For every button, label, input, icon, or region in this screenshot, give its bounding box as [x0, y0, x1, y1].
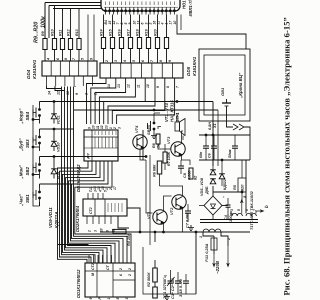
svg-text:R10: R10	[50, 29, 54, 36]
svg-text:68н: 68н	[199, 151, 203, 158]
svg-text:К161КН1: К161КН1	[192, 56, 197, 76]
transformer primary winding	[203, 229, 221, 232]
wire	[154, 282, 156, 287]
svg-text:2: 2	[89, 190, 93, 193]
wire to R12	[70, 11, 72, 38]
svg-text:R15: R15	[109, 28, 113, 36]
svg-text:НА1 КТ315: НА1 КТ315	[170, 100, 175, 122]
svg-text:~220В: ~220В	[215, 260, 220, 274]
wire	[100, 231, 250, 233]
wires transistor pair	[146, 160, 153, 213]
wire	[148, 15, 150, 38]
svg-text:R9: R9	[41, 31, 45, 36]
resistor R19	[146, 38, 150, 49]
svg-text:VT4: VT4	[134, 125, 139, 133]
diode VD9 КД522А	[51, 169, 57, 174]
DD3 bottom pin wires	[58, 161, 89, 190]
battery GB1	[222, 102, 231, 104]
svg-text:С8: С8	[183, 172, 187, 178]
DD1 top pin wires	[88, 255, 90, 263]
ground	[190, 225, 192, 228]
wire	[49, 5, 101, 7]
svg-text:b: b	[264, 205, 269, 208]
wire	[121, 15, 123, 38]
battery box outer	[199, 49, 250, 121]
transistor VT1	[153, 210, 167, 224]
svg-text:2: 2	[128, 268, 132, 271]
wire	[143, 247, 155, 294]
wire	[74, 109, 218, 111]
svg-text:1к: 1к	[157, 144, 161, 148]
wire	[53, 8, 79, 10]
wire	[39, 157, 41, 161]
IC DD3 К176ИД2	[84, 130, 118, 161]
svg-text:К161КН1: К161КН1	[32, 59, 37, 79]
svg-text:9: 9	[89, 298, 93, 300]
capacitor C9	[232, 145, 238, 147]
svg-text:R8: R8	[152, 143, 156, 148]
wire	[157, 49, 159, 64]
svg-text:12: 12	[57, 91, 61, 95]
transistor VT2	[172, 195, 186, 209]
svg-text:VD9-VD11: VD9-VD11	[48, 207, 53, 228]
svg-text:6,8Н: 6,8Н	[208, 122, 212, 130]
wire	[130, 49, 132, 64]
svg-text:Рис. 68. Принципиальная схема: Рис. 68. Принципиальная схема настольных…	[282, 17, 292, 295]
wire	[39, 102, 41, 106]
battery box inner	[204, 55, 245, 115]
svg-text:R13: R13	[75, 29, 79, 36]
svg-text:3: 3	[230, 209, 234, 211]
svg-text:5: 5	[237, 209, 241, 211]
svg-text:С1* С2* С3: С1* С2* С3	[170, 278, 175, 299]
svg-text:17: 17	[113, 185, 117, 190]
wire	[244, 127, 250, 160]
svg-text:R19: R19	[145, 29, 149, 36]
svg-text:5: 5	[104, 190, 108, 192]
wire	[62, 50, 64, 62]
vertical wires mid	[149, 155, 151, 245]
wire	[121, 49, 123, 64]
wire SB2 row extension	[74, 156, 146, 158]
wire row	[40, 101, 75, 103]
resistor R5 820	[238, 178, 246, 192]
wire	[195, 232, 197, 294]
svg-text:VD5...VD8: VD5...VD8	[200, 177, 204, 196]
diode VD6	[210, 179, 216, 184]
svg-text:9: 9	[75, 93, 79, 95]
wire	[48, 6, 50, 39]
wire	[166, 49, 168, 64]
svg-text:X1: X1	[213, 123, 217, 129]
svg-text:R5: R5	[233, 184, 237, 190]
svg-text:9: 9	[168, 60, 172, 62]
wire	[78, 9, 80, 12]
svg-text:ЗП-1: ЗП-1	[175, 112, 180, 122]
resistor R21	[164, 38, 168, 49]
wire	[93, 15, 95, 62]
fuse FU1 0,25А	[211, 238, 217, 250]
svg-text:DD2К176ИЕ4: DD2К176ИЕ4	[75, 205, 80, 232]
wire	[54, 50, 56, 62]
svg-text:R9...R20: R9...R20	[34, 22, 40, 43]
wire	[39, 129, 41, 133]
wire row	[40, 183, 75, 185]
svg-text:7: 7	[176, 85, 180, 88]
svg-text:„Корр”: „Корр”	[19, 108, 24, 125]
svg-text:КД522: КД522	[223, 179, 227, 190]
DD2 top pin wires	[87, 193, 89, 199]
capacitor C8 0,068	[178, 165, 184, 167]
IC DD4 К161КН1	[42, 61, 97, 76]
wire to R10	[54, 6, 56, 39]
transistor VT4	[133, 135, 147, 149]
svg-text:ИВЛ1-7/5: ИВЛ1-7/5	[188, 0, 193, 17]
wire emitter VT3	[182, 155, 191, 166]
svg-text:R6 68К: R6 68К	[153, 164, 157, 177]
resistor R14	[101, 38, 105, 49]
svg-text:8: 8	[64, 58, 68, 60]
svg-text:„Буд”: „Буд”	[19, 138, 24, 152]
svg-text:DD1К176ИЕ12: DD1К176ИЕ12	[76, 269, 81, 298]
capacitor C6 68н	[211, 145, 217, 147]
resistor R8 1к	[156, 134, 160, 144]
resistor R3	[113, 229, 126, 233]
junction dots	[154, 231, 156, 233]
svg-text:R12: R12	[66, 29, 70, 36]
svg-text:1: 1	[107, 298, 111, 300]
svg-text:VD10: VD10	[57, 142, 61, 152]
wire	[112, 15, 114, 38]
wire	[166, 15, 168, 38]
resistor R17	[128, 38, 132, 49]
svg-text:12: 12	[127, 84, 131, 88]
svg-text:„Час”: „Час”	[19, 193, 24, 207]
svg-text:5: 5	[116, 298, 120, 300]
resistor R9	[43, 39, 47, 50]
wire	[153, 113, 155, 119]
ground	[166, 294, 168, 297]
svg-text:3: 3	[117, 127, 121, 129]
svg-text:7: 7	[72, 57, 76, 60]
svg-text:Д9Б: Д9Б	[205, 186, 209, 195]
svg-text:СТ2: СТ2	[91, 263, 95, 270]
wire	[103, 49, 105, 64]
wire	[199, 134, 250, 136]
svg-text:С7 0,068: С7 0,068	[186, 212, 190, 228]
svg-text:VT2: VT2	[169, 207, 174, 215]
connector arrows X1	[233, 124, 244, 130]
svg-text:SB1: SB1	[25, 194, 30, 203]
wire	[87, 15, 89, 62]
bus wires from DD4	[61, 87, 63, 229]
wire	[53, 8, 101, 10]
svg-text:10: 10	[173, 21, 177, 25]
IC DD5 К161КН1	[100, 63, 183, 78]
wire	[213, 191, 242, 193]
resistor R15	[110, 38, 114, 49]
svg-text:HG1: HG1	[182, 0, 187, 9]
wire	[55, 86, 65, 91]
long wire row SB4	[74, 101, 213, 103]
wire	[212, 215, 214, 220]
wire row	[40, 156, 75, 158]
resistor R11	[60, 39, 64, 50]
svg-text:R16: R16	[118, 28, 122, 36]
svg-text:7: 7	[150, 59, 154, 62]
svg-text:R7 100К: R7 100К	[167, 151, 171, 166]
capacitor C2*	[175, 280, 181, 282]
svg-text:R11: R11	[58, 30, 62, 36]
wire	[103, 15, 105, 38]
wire	[39, 184, 41, 188]
svg-text:9: 9	[156, 86, 160, 88]
svg-text:3: 3	[94, 230, 98, 232]
switch SB5	[153, 119, 155, 123]
wire	[155, 293, 196, 295]
svg-text:SB3: SB3	[25, 139, 30, 148]
switch SB3 „Буд”	[39, 133, 41, 137]
DD2 bottom pin wires	[86, 216, 88, 224]
switch SB1 „Час”	[39, 188, 41, 192]
wire	[139, 49, 141, 64]
svg-text:С6: С6	[208, 152, 212, 158]
svg-text:10: 10	[146, 84, 150, 88]
wire	[212, 102, 214, 167]
svg-text:SB2: SB2	[25, 166, 30, 175]
wire	[180, 15, 182, 31]
capacitor C1*	[168, 280, 174, 282]
crystal ZQ1 32768Гц	[153, 287, 158, 298]
svg-text:5: 5	[132, 59, 136, 62]
svg-text:6: 6	[141, 59, 145, 62]
tube pin row	[105, 7, 107, 14]
transistor VT3	[171, 142, 185, 156]
bridge rectifier VD1-VD4	[204, 196, 222, 215]
wire	[53, 101, 55, 103]
wire	[148, 49, 150, 64]
svg-text:+: +	[222, 196, 226, 198]
wire	[44, 50, 46, 62]
diode VD10 КД522А	[51, 141, 57, 146]
wire	[130, 15, 132, 38]
capacitor C4 100мк	[226, 204, 231, 206]
svg-text:СТ2: СТ2	[89, 207, 93, 214]
resistor R6 68К	[157, 161, 162, 174]
svg-text:VT3: VT3	[166, 136, 171, 144]
svg-text:М: М	[91, 272, 95, 276]
svg-text:3: 3	[125, 298, 129, 300]
wire	[45, 2, 101, 4]
resistor R12	[68, 39, 72, 50]
svg-text:8: 8	[166, 86, 170, 88]
wire to R9	[44, 3, 46, 39]
svg-text:9: 9	[90, 58, 94, 60]
capacitor C7 0,068	[185, 210, 191, 212]
speaker HA1	[175, 122, 180, 131]
resistor R20	[155, 38, 159, 49]
svg-text:50мк: 50мк	[228, 149, 232, 158]
resistor R16	[119, 38, 123, 49]
common switch wire	[33, 105, 40, 206]
wire	[157, 15, 159, 38]
wire	[58, 244, 89, 246]
svg-text:10: 10	[100, 228, 104, 232]
svg-text:R18: R18	[136, 29, 140, 36]
wire	[159, 149, 161, 161]
wire	[199, 159, 250, 161]
secondary wires and arrows a b	[231, 213, 233, 216]
diode VD11 КД522А	[51, 114, 57, 119]
ground	[153, 133, 155, 136]
wire	[62, 9, 64, 12]
svg-text:R20: R20	[154, 29, 158, 36]
svg-text:SB4: SB4	[25, 111, 30, 120]
wire	[154, 260, 156, 268]
svg-text:3: 3	[114, 60, 118, 62]
wire collector VT3	[182, 131, 184, 144]
wire	[158, 127, 161, 130]
svg-text:VD11: VD11	[57, 115, 61, 124]
wire row	[40, 128, 75, 130]
resistor R10	[52, 39, 56, 50]
svg-text:SB5: SB5	[146, 126, 151, 135]
svg-text:„Мин”: „Мин”	[19, 164, 24, 179]
svg-text:100к: 100к	[41, 16, 47, 28]
IC DD2 К176ИЕ4	[83, 199, 127, 216]
svg-text:3: 3	[94, 190, 98, 192]
svg-text:R14: R14	[100, 29, 104, 36]
svg-text:2: 2	[119, 268, 123, 271]
transformer secondary b	[246, 213, 256, 216]
wire	[47, 86, 62, 89]
svg-text:82: 82	[194, 175, 198, 180]
wire to R13	[78, 11, 80, 38]
capacitor C5 68н	[203, 145, 209, 147]
svg-text:„Крона ВЦ”: „Крона ВЦ”	[238, 72, 243, 99]
DD5 bottom pin wires	[87, 78, 107, 124]
zener VD9 КД522	[219, 174, 225, 179]
transformer T1 core	[200, 219, 258, 221]
svg-text:2: 2	[128, 274, 132, 277]
DD4 bottom pins	[46, 76, 48, 86]
wire	[212, 186, 214, 196]
wire	[127, 208, 140, 232]
resistor R2 560К	[153, 268, 158, 282]
wire	[164, 144, 166, 152]
svg-text:СТ: СТ	[106, 265, 110, 270]
svg-text:2: 2	[88, 230, 92, 233]
wire	[74, 86, 76, 87]
wire	[227, 110, 234, 127]
svg-text:GB1: GB1	[220, 87, 225, 96]
wire	[118, 216, 129, 228]
svg-text:VT1...VT4: VT1...VT4	[164, 102, 169, 122]
svg-text:14: 14	[48, 91, 52, 95]
IC DD1 К176ИЕ12	[85, 263, 135, 297]
capacitor C3	[183, 280, 189, 282]
wire to R11	[62, 11, 64, 38]
switch SB2 „Мин”	[39, 161, 41, 165]
svg-text:R2 560К: R2 560К	[147, 272, 151, 287]
svg-text:5: 5	[81, 57, 85, 60]
trimmer arrow	[167, 277, 175, 286]
svg-text:14: 14	[107, 84, 111, 88]
svg-text:13: 13	[117, 84, 121, 88]
wire	[70, 9, 72, 12]
wire	[70, 50, 72, 62]
svg-text:R4 10К: R4 10К	[127, 233, 131, 246]
svg-text:4: 4	[99, 190, 103, 193]
wire	[176, 113, 178, 122]
wire	[78, 50, 80, 62]
svg-text:6: 6	[119, 273, 123, 276]
switch SB4 „Корр”	[39, 106, 41, 110]
svg-text:820: 820	[241, 184, 245, 191]
svg-text:R17: R17	[127, 28, 131, 36]
wire	[139, 15, 141, 38]
mains arrows	[213, 254, 216, 267]
svg-text:11: 11	[136, 84, 140, 88]
primary wires	[203, 232, 214, 236]
diode VD5	[210, 170, 216, 175]
svg-text:КД522А: КД522А	[54, 212, 59, 228]
wire cascade into DD1	[58, 190, 88, 263]
wire	[44, 3, 46, 39]
svg-text:FU1 0,25А: FU1 0,25А	[205, 243, 209, 262]
svg-text:1: 1	[199, 236, 203, 238]
svg-text:8: 8	[159, 60, 163, 62]
svg-text:DD4: DD4	[26, 69, 31, 79]
resistor R13	[77, 39, 81, 50]
resistor R18	[137, 38, 141, 49]
wire from display to battery	[177, 15, 246, 50]
resistor R9 82	[189, 168, 193, 179]
transformer secondary a	[232, 213, 242, 216]
svg-text:DD5: DD5	[186, 66, 191, 76]
vfd display tube HL1 ИВЛ1-7/5	[101, 0, 180, 11]
wire	[217, 110, 219, 166]
svg-text:6: 6	[56, 57, 60, 60]
wire	[112, 49, 114, 64]
resistor R7 100К	[163, 152, 167, 163]
